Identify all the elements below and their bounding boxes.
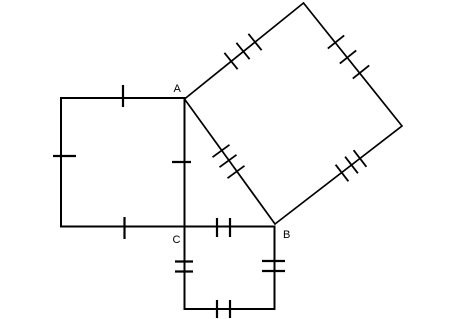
- tick pair: bottom square right edge: [262, 260, 285, 262]
- tick: left square left edge: [53, 155, 76, 157]
- wire: left square left edge: [60, 98, 62, 227]
- wire: vertical line A-C continuing to bottom square: [184, 98, 186, 309]
- wire: hypotenuse A to B: [185, 99, 276, 224]
- single tick marks on left square: [53, 85, 191, 239]
- left square on side AC: [61, 98, 275, 309]
- svg-text:B: B: [283, 229, 290, 241]
- wire: side A to top vertex: [185, 3, 304, 99]
- tick triple: side top-right: [328, 35, 344, 48]
- wire: bottom square bottom edge: [185, 308, 275, 310]
- tick: side AC: [172, 161, 191, 163]
- square on hypotenuse AB: [185, 3, 403, 224]
- tick pair: bottom square left edge: [175, 260, 193, 262]
- triple tick marks on hypotenuse square: [213, 34, 370, 182]
- double tick marks on bottom square: [175, 218, 285, 318]
- tick pair: side CB: [216, 218, 218, 237]
- svg-text:C: C: [173, 234, 181, 246]
- svg-text:A: A: [174, 83, 182, 95]
- wire: side top vertex to right vertex: [304, 3, 403, 126]
- wire: left square top edge: [61, 97, 185, 99]
- tick triple: side right-B: [336, 165, 349, 182]
- wire: side right vertex to B: [275, 126, 402, 224]
- wire: horizontal line through C to B: [61, 226, 275, 228]
- tick: left square bottom edge: [123, 217, 125, 239]
- tick: left square top edge: [122, 85, 124, 107]
- wire: bottom square right edge: [274, 227, 276, 310]
- tick triple: side A-top: [224, 53, 237, 69]
- tick triple: side A-B: [213, 145, 230, 157]
- tick pair: bottom square bottom edge: [216, 300, 218, 318]
